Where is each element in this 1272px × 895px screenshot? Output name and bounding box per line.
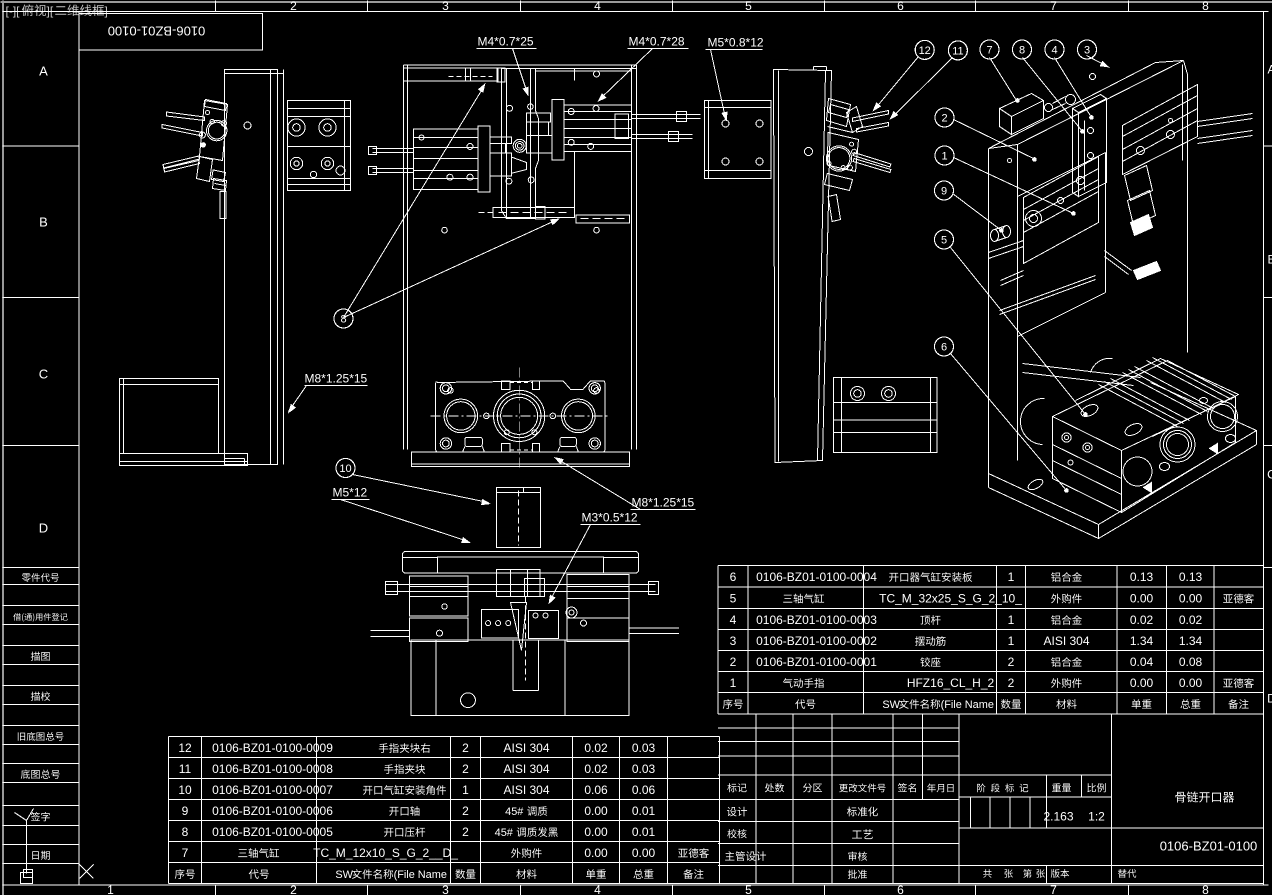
- view5 side rods: [371, 630, 410, 632]
- svg-text:2: 2: [462, 825, 469, 839]
- svg-text:M5*12: M5*12: [333, 486, 368, 500]
- svg-text:AISI 304: AISI 304: [503, 741, 549, 755]
- view2 right rods: [632, 114, 701, 116]
- svg-text:10: 10: [178, 783, 192, 797]
- svg-text:2.163: 2.163: [1043, 810, 1073, 824]
- svg-text:12: 12: [919, 45, 931, 57]
- balloon 6 leader: [951, 354, 1067, 491]
- svg-text:6: 6: [941, 342, 947, 354]
- iso panel holes: [1090, 74, 1096, 80]
- svg-text:0106-BZ01-0100-0004: 0106-BZ01-0100-0004: [756, 570, 877, 584]
- view2 balloon 8 leaders: [344, 86, 485, 318]
- svg-text:B: B: [1267, 253, 1272, 267]
- svg-text:0.00: 0.00: [584, 846, 608, 860]
- iso bracket top pin: [1066, 95, 1076, 105]
- svg-text:8: 8: [1019, 45, 1025, 57]
- right BOM header row: [723, 699, 733, 709]
- svg-text:8: 8: [182, 825, 189, 839]
- view5 lower body: [411, 640, 629, 715]
- svg-text:11: 11: [952, 45, 963, 57]
- svg-text:12: 12: [178, 741, 192, 755]
- iso cylinder bore bolts: [1160, 463, 1170, 471]
- view1 cylinder bolts: [288, 119, 305, 136]
- svg-text:2: 2: [462, 804, 469, 818]
- iso back panel left face: [988, 149, 990, 474]
- svg-text:2: 2: [462, 741, 469, 755]
- balloon 1: [935, 146, 954, 165]
- iso panel cutout hole: [1018, 153, 1106, 197]
- view3 tall plate: [774, 70, 832, 463]
- view3 bottom rod: [828, 195, 840, 222]
- svg-text:0.01: 0.01: [632, 804, 656, 818]
- svg-text:6: 6: [897, 0, 904, 13]
- sidebar right line: [78, 12, 80, 886]
- title block right part: [1111, 714, 1113, 884]
- svg-text:5: 5: [745, 0, 752, 13]
- balloon 11 leader: [892, 59, 952, 119]
- balloon 10 leader: [353, 475, 489, 503]
- view3 lower block: [825, 174, 853, 191]
- svg-text:0.02: 0.02: [584, 762, 608, 776]
- view5 pusher block: [497, 488, 541, 548]
- paper edge gray top: [1, 1, 1272, 3]
- view1 gripper lower jaws: [197, 157, 213, 182]
- svg-text:AISI 304: AISI 304: [503, 762, 549, 776]
- svg-text:0.00: 0.00: [1179, 592, 1203, 606]
- view3 square plate: [705, 101, 772, 179]
- right BOM table grid: [718, 565, 1264, 567]
- view2 base bar: [412, 452, 630, 467]
- view5 center lines: [525, 597, 527, 681]
- cross mark: [80, 865, 94, 879]
- view2 bottom rail: [493, 208, 575, 218]
- svg-text:7: 7: [182, 846, 189, 860]
- view2 left cylinder: [414, 129, 479, 189]
- svg-text:1: 1: [1008, 570, 1015, 584]
- svg-text:SW-: SW-: [882, 699, 903, 711]
- svg-text:2: 2: [941, 113, 947, 125]
- svg-text:TC_M_32x25_S_G_2_10_: TC_M_32x25_S_G_2_10_: [879, 592, 1022, 606]
- svg-text:3: 3: [1084, 45, 1090, 57]
- svg-text:0.02: 0.02: [1130, 613, 1154, 627]
- view2 right cylinder: [564, 105, 632, 152]
- ucs icon: [26, 821, 28, 874]
- svg-text:1: 1: [107, 883, 114, 895]
- view2 right bracket plate edge: [574, 152, 576, 215]
- balloon 5 leader: [951, 248, 1086, 415]
- iso right rods: [1198, 114, 1253, 122]
- view3 gripper body: [827, 133, 858, 172]
- view2 column bearing: [515, 142, 524, 151]
- balloon 4 leader: [1055, 58, 1092, 118]
- balloon 2: [935, 108, 954, 127]
- balloon 4: [1045, 40, 1064, 59]
- svg-text:0106-BZ01-0100-0007: 0106-BZ01-0100-0007: [212, 783, 333, 797]
- balloon 2 leader: [954, 120, 1034, 159]
- svg-text:B: B: [39, 215, 48, 230]
- balloon 1 leader: [954, 158, 1074, 214]
- svg-text:11: 11: [179, 762, 192, 776]
- iso back panel top face: [989, 63, 1156, 149]
- view3 gripper flange: [826, 146, 851, 171]
- iso cylinder block left face: [1053, 417, 1122, 513]
- view2 right jaw blocks: [526, 113, 550, 122]
- view1 bottom box: [120, 379, 219, 454]
- svg-text:0106-BZ01-0100-0002: 0106-BZ01-0100-0002: [756, 634, 877, 648]
- iso cylinder block right face: [1122, 397, 1236, 513]
- balloon 8: [334, 309, 353, 328]
- svg-text:0.00: 0.00: [1130, 592, 1154, 606]
- border right line: [1263, 12, 1265, 886]
- balloon 12 leader: [875, 57, 919, 110]
- svg-text:C: C: [39, 367, 48, 382]
- svg-text:2: 2: [290, 883, 297, 895]
- svg-text:1: 1: [462, 783, 469, 797]
- svg-text:6: 6: [897, 883, 904, 895]
- svg-text:0106-BZ01-0100-0001: 0106-BZ01-0100-0001: [756, 655, 877, 669]
- svg-text:0.03: 0.03: [632, 762, 656, 776]
- view2 bottom manifold plate: [436, 381, 605, 452]
- iso panel bottom slant bars: [1023, 364, 1141, 378]
- svg-text:7: 7: [1050, 883, 1057, 895]
- iso cylinder raised body: [1076, 359, 1239, 437]
- left BOM table grid: [169, 736, 720, 738]
- zone ticks top: [215, 1, 217, 12]
- iso left rod and pin: [989, 241, 1024, 253]
- manifold corner bolts: [440, 383, 451, 394]
- svg-text:3: 3: [442, 883, 449, 895]
- view2 plate holes: [594, 71, 600, 77]
- balloon 11: [948, 41, 967, 60]
- svg-text:2: 2: [1008, 655, 1015, 669]
- svg-text:6: 6: [730, 570, 737, 584]
- iso top assembly small box: [1000, 94, 1044, 117]
- view1 cylinder block right: [288, 101, 351, 191]
- view3 fingers upper: [853, 111, 889, 122]
- svg-text:0.03: 0.03: [632, 741, 656, 755]
- svg-text:SW-: SW-: [335, 869, 356, 881]
- svg-text:AISI 304: AISI 304: [1043, 634, 1089, 648]
- balloon 10: [336, 459, 355, 478]
- svg-text:4: 4: [594, 883, 601, 895]
- svg-text:AISI 304: AISI 304: [503, 783, 549, 797]
- paper edge gray left: [2, 1, 4, 895]
- iso cylinder front bolts: [1062, 433, 1071, 442]
- view3 plate hole: [805, 148, 813, 156]
- view2 top-right shelf: [536, 68, 637, 70]
- view2 top-left bar: [404, 68, 498, 81]
- iso cylinder top face ovals: [1079, 402, 1100, 419]
- svg-text:9: 9: [182, 804, 189, 818]
- balloon 8t leader: [1023, 58, 1083, 132]
- svg-text:1: 1: [730, 676, 737, 690]
- svg-text:0.02: 0.02: [584, 741, 608, 755]
- balloon 6: [935, 337, 954, 356]
- svg-text:0106-BZ01-0100: 0106-BZ01-0100: [108, 24, 206, 39]
- svg-text:8: 8: [1202, 883, 1209, 895]
- title block signature labels: [727, 807, 737, 817]
- svg-text:D: D: [39, 521, 48, 536]
- title block stage labels: [977, 783, 985, 792]
- svg-text:2: 2: [1008, 676, 1015, 690]
- svg-text:0.02: 0.02: [1179, 613, 1203, 627]
- svg-text:4: 4: [730, 613, 737, 627]
- svg-text:TC_M_12x10_S_G_2__D_: TC_M_12x10_S_G_2__D_: [313, 846, 458, 860]
- svg-text:3: 3: [442, 0, 449, 13]
- svg-text:0.13: 0.13: [1179, 570, 1203, 584]
- svg-text:45#: 45#: [505, 806, 524, 818]
- manifold centerlines: [519, 368, 521, 471]
- border bottom line: [3, 884, 1269, 886]
- svg-text:5: 5: [745, 883, 752, 895]
- balloon 9 leader: [953, 194, 1002, 231]
- sidebar label rows: [3, 567, 80, 569]
- svg-text:0106-BZ01-0100-0003: 0106-BZ01-0100-0003: [756, 613, 877, 627]
- svg-text:7: 7: [986, 45, 992, 57]
- balloon 3: [1078, 40, 1097, 59]
- svg-text:D: D: [1267, 692, 1272, 706]
- iso small rods bottom-left of assembly: [1000, 276, 1096, 311]
- manifold big circles: [444, 399, 478, 433]
- iso cylinder vent triangles: [1144, 483, 1152, 493]
- svg-text:2: 2: [730, 655, 737, 669]
- iso right gripper cylinder: [1123, 96, 1198, 175]
- svg-text:1.34: 1.34: [1179, 634, 1203, 648]
- balloon 7 leader: [990, 58, 1017, 101]
- view5 right cylinder: [567, 575, 629, 619]
- view2 central column: [502, 69, 539, 219]
- top-left reversed title box: [79, 14, 263, 51]
- view5 center block: [497, 570, 541, 597]
- view5 left cylinder: [410, 576, 469, 616]
- svg-text:0.00: 0.00: [632, 846, 656, 860]
- view5 top bar: [403, 552, 639, 574]
- svg-text:0106-BZ01-0100-0005: 0106-BZ01-0100-0005: [212, 825, 333, 839]
- svg-text:8: 8: [1202, 0, 1209, 13]
- svg-text:2: 2: [462, 762, 469, 776]
- iso panel right edge: [1187, 75, 1189, 353]
- svg-text:C: C: [1267, 468, 1272, 482]
- svg-text:HFZ16_CL_H_2: HFZ16_CL_H_2: [907, 676, 995, 690]
- iso cylinder rear lug arc: [1020, 398, 1044, 444]
- iso cylinder bores right face: [1160, 427, 1195, 462]
- svg-text:4: 4: [1051, 45, 1057, 57]
- view2 left rods: [373, 148, 414, 150]
- svg-text:9: 9: [941, 186, 947, 198]
- svg-text:(File Name: (File Name: [941, 699, 994, 711]
- view1 gripper body: [200, 101, 228, 161]
- view2 lower shelf: [576, 215, 630, 223]
- sidebar zone letters: [3, 145, 80, 147]
- view3 fingers lower: [853, 153, 891, 168]
- svg-text:M4*0.7*25: M4*0.7*25: [478, 35, 534, 49]
- manifold top center tabs: [502, 381, 510, 390]
- svg-text:0106-BZ01-0100: 0106-BZ01-0100: [1160, 839, 1258, 854]
- iso cylinder block top face: [1053, 361, 1236, 451]
- sheet count row: [983, 869, 992, 878]
- title block grid: [718, 727, 959, 729]
- view3 top cluster: [827, 99, 851, 127]
- svg-text:M3*0.5*12: M3*0.5*12: [582, 511, 638, 525]
- svg-text:10: 10: [339, 463, 351, 475]
- svg-text:A: A: [1267, 63, 1272, 77]
- balloon 3 leader: [1087, 56, 1110, 68]
- balloon 9: [935, 181, 954, 200]
- svg-text:0.13: 0.13: [1130, 570, 1154, 584]
- balloon 5: [935, 230, 954, 249]
- svg-text:0.01: 0.01: [632, 825, 656, 839]
- svg-text:2: 2: [290, 0, 297, 13]
- svg-text:0.00: 0.00: [1130, 676, 1154, 690]
- view3 bottom box bolts: [851, 387, 865, 401]
- svg-text:M4*0.7*28: M4*0.7*28: [629, 35, 685, 49]
- svg-text:0106-BZ01-0100-0009: 0106-BZ01-0100-0009: [212, 741, 333, 755]
- svg-text:0.00: 0.00: [584, 825, 608, 839]
- view1 plate bottom foot: [225, 458, 245, 460]
- svg-text:0.00: 0.00: [1179, 676, 1203, 690]
- svg-text:0.06: 0.06: [632, 783, 656, 797]
- svg-text:0.04: 0.04: [1130, 655, 1154, 669]
- svg-text:M5*0.8*12: M5*0.8*12: [708, 36, 764, 50]
- title block revision header labels: [727, 783, 736, 792]
- view5 rod: [386, 584, 656, 586]
- balloon 3 arrowhead: [1100, 61, 1110, 68]
- svg-text:8: 8: [340, 314, 346, 326]
- iso base plate: [989, 383, 1257, 525]
- view3 bottom box: [834, 378, 938, 453]
- view1 base plate: [120, 454, 248, 466]
- view1 gripper flange: [207, 120, 227, 140]
- iso cylinder grooves: [1099, 385, 1178, 427]
- svg-text:0.00: 0.00: [584, 804, 608, 818]
- manifold bottom center tabs: [502, 444, 510, 453]
- drawing title: [1175, 792, 1185, 803]
- svg-text:A: A: [39, 64, 48, 79]
- iso finger wedges: [1125, 166, 1153, 201]
- view5 middle gripper bits: [482, 610, 519, 639]
- view1 push rod: [220, 192, 226, 219]
- view2 front view - plate outline: [403, 65, 405, 450]
- svg-text:M8*1.25*15: M8*1.25*15: [305, 372, 368, 386]
- border top line: [3, 11, 1269, 13]
- svg-text:3: 3: [730, 634, 737, 648]
- svg-text:(File Name: (File Name: [394, 869, 447, 881]
- svg-text:0106-BZ01-0100-0008: 0106-BZ01-0100-0008: [212, 762, 333, 776]
- manifold bottom tabs: [465, 437, 482, 446]
- svg-text:45#: 45#: [495, 827, 514, 839]
- svg-text:0106-BZ01-0100-0006: 0106-BZ01-0100-0006: [212, 804, 333, 818]
- iso central bracket column: [1073, 95, 1107, 113]
- svg-text:1: 1: [1008, 634, 1015, 648]
- view1 gripper fingers: [167, 112, 205, 121]
- leader end dots: [1016, 99, 1020, 103]
- svg-text:1: 1: [941, 151, 947, 163]
- view1 plate hole: [244, 122, 251, 129]
- svg-text:7: 7: [1050, 0, 1057, 13]
- iso left gripper cylinder: [1024, 157, 1099, 233]
- left BOM header row: [175, 869, 185, 879]
- svg-text:1: 1: [1008, 613, 1015, 627]
- svg-text:1:2: 1:2: [1088, 810, 1105, 824]
- svg-text:4: 4: [594, 0, 601, 13]
- view1 left side view - main vertical plate: [225, 70, 278, 465]
- balloon 12: [915, 40, 934, 59]
- balloon 8: [1013, 40, 1032, 59]
- zone ticks bottom: [215, 885, 217, 895]
- svg-text:5: 5: [941, 235, 947, 247]
- view2 left jaw blocks: [490, 137, 512, 144]
- balloon 7: [980, 40, 999, 59]
- svg-text:0.08: 0.08: [1179, 655, 1203, 669]
- svg-text:M8*1.25*15: M8*1.25*15: [632, 496, 695, 510]
- svg-text:0.06: 0.06: [584, 783, 608, 797]
- svg-text:1.34: 1.34: [1130, 634, 1154, 648]
- svg-text:5: 5: [730, 592, 737, 606]
